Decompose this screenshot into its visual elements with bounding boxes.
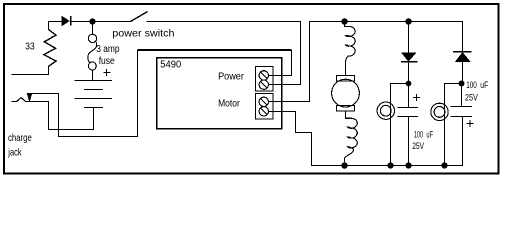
capacitor C1 plus sign [413,94,420,101]
resistor R1 33 ohm [12,22,57,75]
speed control box 5490 [157,58,282,129]
wire node C through connector ring CN2 to bottom rail [445,84,462,166]
svg-text:100: 100 [414,129,423,139]
svg-text:Power: Power [218,72,244,83]
TB1 screw 2 [259,80,268,89]
wire Motor terminal 2 jog down to bottom rail [269,112,463,166]
wire switch to Power terminal 2 [147,22,301,85]
power switch S1 blade [131,12,148,22]
fuse F1 top circle [88,34,96,42]
connector ring CN2 inner [434,107,445,118]
TB2 screw 1 [259,97,268,106]
wire down to diode D2 [408,22,410,54]
charge jack J1 sleeve contact, wire to battery negative [12,98,94,130]
capacitor C1 plates [398,107,419,109]
svg-text:power switch: power switch [112,29,174,40]
fuse F1 lead from node A [92,24,94,34]
TB1 screw 1 [259,71,268,80]
battery BT1 plate 4 short [84,107,103,109]
svg-text:fuse: fuse [99,56,115,67]
terminal block TB1 Power [256,67,274,92]
connector ring CN1 inner [380,105,391,116]
wire node B to capacitor C1 [408,84,410,108]
diode D3 pointing up [456,53,470,62]
wire node B through connector ring CN1 to bottom rail [391,84,409,166]
inductor L2 bottom choke [345,112,358,163]
terminal block TB2 Motor [256,94,274,120]
capacitor C2 plates [451,106,473,108]
svg-text:3 amp: 3 amp [96,44,120,55]
motor M1 body [332,79,360,107]
svg-text:25V: 25V [465,92,478,102]
wire fuse to battery [92,70,94,81]
wire Motor terminal 1 up and top rail [269,22,463,102]
motor M1 top brush [337,76,355,82]
wire node C to capacitor C2 [461,84,463,107]
bottom rail node dot CN1 branch [387,162,393,168]
wire diode D3 to node C [462,62,464,84]
node dot bottom rail motor branch [341,162,347,168]
connector ring CN2 outer [431,103,448,120]
diode D2 pointing down [402,53,415,61]
wire riser to Power terminal 1 [269,50,292,76]
wire jack tip long horizontal run [138,49,292,51]
bottom rail node dot C1 branch [405,162,411,168]
svg-text:5490: 5490 [160,60,181,71]
connector ring CN1 outer [377,102,394,119]
wire jack tip to Power terminal 1 [31,50,138,137]
node dot top rail diode branch [405,18,411,24]
TB2 screw 2 [259,107,268,116]
diode D3 bar [453,51,472,53]
battery BT1 plate 3 long [75,98,113,100]
diode D1 series pointing right [62,17,69,26]
svg-text:uF: uF [480,80,488,90]
wire capacitor C1 to bottom rail [408,117,410,166]
border frame [4,4,499,174]
svg-text:Motor: Motor [218,99,240,110]
svg-text:charge: charge [8,133,32,144]
svg-text:jack: jack [8,147,23,158]
battery BT1 plate 1 long [75,80,113,82]
charge jack J1 tip contact triangle [27,94,31,101]
fuse F1 bottom circle [88,62,96,70]
node C dot [459,81,465,87]
svg-text:33: 33 [25,41,35,52]
junction node A dot [89,18,95,24]
fuse F1 S-link [88,41,97,62]
svg-text:100: 100 [466,80,477,90]
svg-text:uF: uF [426,129,433,139]
svg-text:25V: 25V [412,141,424,151]
wire diode to switch [71,21,131,23]
inductor L1 top choke [345,22,356,76]
wire top-left to diode [49,21,63,23]
node B dot [406,81,412,87]
capacitor C2 plus sign [467,120,474,127]
motor M1 bottom brush [337,106,355,112]
battery BT1 plate 2 short [84,89,103,91]
wire diode D2 to node B [408,62,410,84]
battery BT1 plus sign [104,69,111,76]
bottom rail node dot CN2 branch [441,162,447,168]
node dot top rail motor branch [341,18,347,24]
